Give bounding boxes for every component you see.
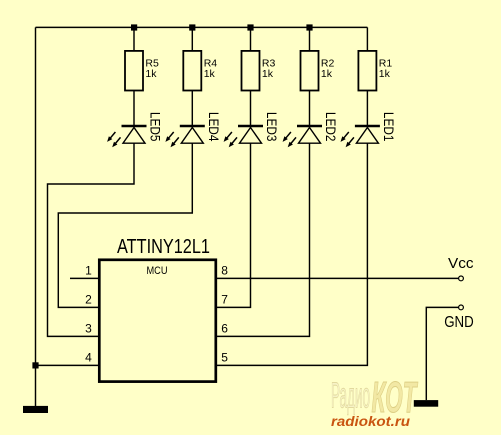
wire: R3 to LED3 (250, 91, 252, 125)
node Vcc terminal (459, 276, 464, 281)
svg-text:MCU: MCU (147, 265, 168, 277)
wire: LED2 to pin 6 route (217, 143, 310, 336)
svg-text:1: 1 (85, 263, 92, 277)
svg-text:1k: 1k (321, 68, 333, 80)
wire: pin 1 stub (70, 277, 98, 279)
svg-text:5: 5 (221, 350, 228, 364)
svg-text:4: 4 (85, 350, 92, 364)
wire: left rail vertical (35, 27, 37, 406)
svg-text:1k: 1k (379, 68, 391, 80)
node: junction dot R5 (131, 24, 137, 30)
node GND terminal (459, 305, 464, 310)
node: junction dot R4 (189, 24, 195, 30)
LED LED3 (224, 112, 280, 147)
svg-text:1k: 1k (204, 68, 216, 80)
svg-text:2: 2 (85, 292, 92, 306)
MCU U1 ATTINY12L1 (99, 236, 216, 382)
svg-text:LED5: LED5 (148, 112, 163, 141)
svg-text:ATTINY12L1: ATTINY12L1 (117, 236, 210, 258)
svg-text:1k: 1k (145, 68, 157, 80)
svg-text:LED3: LED3 (264, 112, 279, 141)
LED LED4 (165, 112, 221, 147)
wire: LED1 to pin 5 route (217, 143, 367, 365)
node: junction dot R3 (247, 24, 253, 30)
wire: R2 to LED2 (309, 91, 311, 125)
wire: LED4 to pin 2 route (58, 143, 192, 307)
wire: R5 to LED5 (133, 91, 135, 125)
wire: rail to R3 (250, 27, 252, 51)
wire: rail to R5 (133, 27, 135, 51)
svg-text:LED2: LED2 (323, 112, 338, 141)
ground (left) (23, 406, 48, 413)
LED LED2 (283, 112, 339, 147)
node: junction dot pin4/rail (32, 362, 38, 368)
svg-text:radiokot.ru: radiokot.ru (331, 414, 411, 429)
svg-text:LED1: LED1 (381, 112, 396, 141)
resistor R3 (242, 51, 276, 91)
wire: rail to R4 (191, 27, 193, 51)
node: junction dot R2 (306, 24, 312, 30)
wire: LED3 to pin 7 route (217, 143, 251, 307)
wire: top ground rail (36, 26, 368, 28)
resistor R2 (301, 51, 335, 91)
resistor R1 (358, 51, 392, 91)
svg-text:Vcc: Vcc (448, 255, 474, 272)
svg-text:1k: 1k (262, 68, 274, 80)
LED LED5 (107, 112, 163, 147)
wire: rail corner down to R1 (366, 27, 368, 51)
wire: R4 to LED4 (191, 91, 193, 125)
svg-text:Радио: Радио (331, 375, 370, 416)
svg-text:3: 3 (85, 321, 92, 335)
svg-text:GND: GND (444, 314, 474, 331)
LED LED1 (341, 112, 397, 147)
wire: R1 to LED1 (366, 91, 368, 125)
watermark Радио КОТ logo (331, 373, 418, 422)
wire: pin 4 to left rail (36, 364, 99, 366)
svg-text:6: 6 (221, 321, 228, 335)
svg-text:LED4: LED4 (206, 112, 221, 142)
resistor R5 (125, 51, 159, 91)
wire: GND terminal to ground (426, 307, 458, 400)
wire: LED5 to pin 3 route (48, 143, 135, 336)
svg-text:7: 7 (221, 292, 228, 306)
resistor R4 (183, 51, 217, 91)
svg-text:8: 8 (221, 263, 228, 277)
ground (right) (414, 400, 438, 407)
wire: rail to R2 (309, 27, 311, 51)
wire: pin 8 to Vcc (217, 277, 459, 279)
